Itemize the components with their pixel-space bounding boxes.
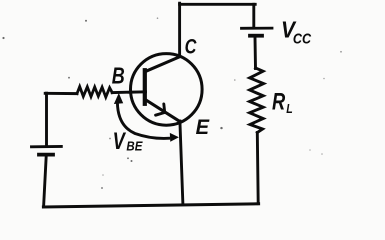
transistor Q1 emitter arrow	[156, 104, 165, 115]
arrow VBE right (at emitter)	[170, 133, 179, 142]
wire VCC top lead	[252, 4, 255, 26]
wire left battery bottom lead	[44, 156, 47, 206]
svg-text:C: C	[185, 34, 197, 58]
battery V plate long (left)	[32, 145, 62, 148]
resistor RL zigzag	[250, 68, 264, 133]
arc VBE with arrows	[117, 103, 170, 139]
svg-text:BE: BE	[126, 138, 143, 153]
wire base to transistor	[112, 90, 145, 94]
svg-text:V: V	[113, 128, 127, 155]
arrow VBE up (at base)	[114, 93, 123, 104]
wire VCC to RL	[254, 38, 257, 69]
wire base horizontal left	[45, 92, 77, 95]
battery VCC plate long	[242, 27, 273, 30]
svg-text:B: B	[112, 62, 125, 88]
wire collector vertical	[178, 3, 181, 56]
transistor Q1 collector lead	[145, 57, 180, 72]
svg-text:CC: CC	[293, 31, 311, 47]
battery VCC plate short	[250, 34, 262, 38]
specks	[2, 17, 342, 189]
svg-text:R: R	[272, 88, 285, 115]
transistor Q1 base bar	[143, 70, 147, 104]
svg-text:L: L	[286, 102, 293, 116]
wire base left corner vertical	[45, 93, 48, 145]
wire top rail	[180, 3, 256, 6]
svg-text:E: E	[196, 115, 210, 139]
transistor Q1 circle	[131, 54, 203, 126]
resistor R base zigzag	[77, 87, 112, 98]
transistor Q1 emitter lead	[146, 100, 180, 122]
battery V plate short (left)	[39, 153, 53, 157]
wire bottom rail	[43, 204, 258, 207]
wire RL bottom lead	[256, 133, 260, 204]
wire emitter vertical	[180, 121, 183, 204]
